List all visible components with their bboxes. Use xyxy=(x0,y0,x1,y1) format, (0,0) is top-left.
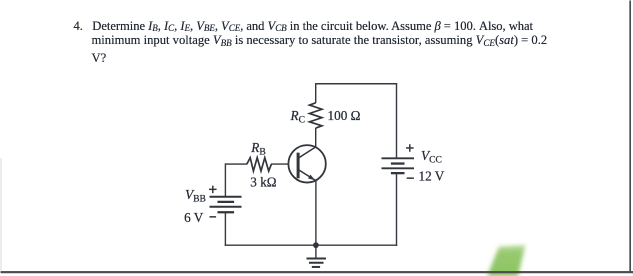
wire: collector vertical (RC to transistor) xyxy=(315,146,317,149)
wire: bottom rail xyxy=(225,244,398,246)
transistor Q1 (NPN) xyxy=(288,145,325,182)
problem number 4. xyxy=(74,20,83,33)
svg-text:3 kΩ: 3 kΩ xyxy=(250,175,276,190)
page right border line xyxy=(629,0,631,271)
svg-text:RC: RC xyxy=(290,108,305,126)
minus sign VCC xyxy=(407,177,414,179)
problem text line 3 xyxy=(92,52,107,65)
svg-text:12 V: 12 V xyxy=(419,169,445,184)
wire: VBB down to bottom rail xyxy=(224,212,226,246)
svg-text:6 V: 6 V xyxy=(184,210,204,225)
ground xyxy=(307,245,327,267)
junction node (emitter / ground) xyxy=(313,242,319,248)
wire: right branch upper (top rail down to VCC + plate) xyxy=(396,83,398,158)
problem text line 1 xyxy=(92,20,533,33)
wire: top rail from RC top to VCC branch xyxy=(315,83,397,85)
svg-text:RB: RB xyxy=(250,140,265,158)
plus sign VBB xyxy=(209,186,217,194)
wire: emitter vertical down to bottom rail xyxy=(315,180,317,245)
green highlighter swoosh xyxy=(487,245,525,276)
wire: left branch from RB down to VBB xyxy=(224,163,226,196)
page left border faint line xyxy=(1,158,2,271)
resistor RC xyxy=(310,84,322,148)
svg-text:VBB: VBB xyxy=(185,187,206,205)
battery VBB xyxy=(210,197,242,213)
problem text line 2 xyxy=(92,34,548,47)
minus sign VBB xyxy=(210,216,217,218)
svg-text:100 Ω: 100 Ω xyxy=(328,108,361,123)
wire: VCC down to bottom rail xyxy=(396,173,398,246)
resistor RB xyxy=(225,158,271,171)
wire: base lead from RB to transistor xyxy=(271,163,289,165)
page bottom border line xyxy=(1,271,633,273)
battery VCC xyxy=(382,158,415,173)
svg-text:VCC: VCC xyxy=(421,148,442,166)
plus sign VCC xyxy=(406,144,414,152)
